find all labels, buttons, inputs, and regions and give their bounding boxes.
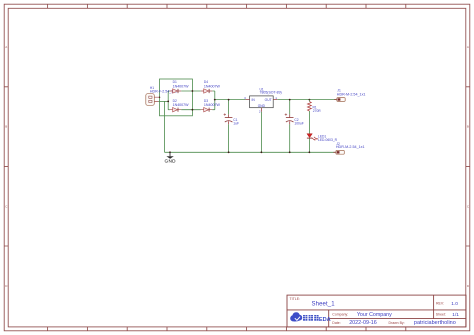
junction at R1 top [309,99,311,101]
wire loop around bridge (net of H1 pin 1) [160,79,193,116]
ground symbol GND [164,152,176,163]
svg-text:patriciabertholino: patriciabertholino [414,320,456,326]
svg-text:2022-09-16: 2022-09-16 [349,320,377,326]
connector H1 [146,86,177,105]
connector J1 [334,88,365,101]
wire C1 top stub [228,100,230,115]
diode D3 [201,99,221,112]
junction at D1/D2 anode branch [167,101,169,103]
svg-text:1N4007W: 1N4007W [173,103,190,107]
wire D1 anode down to D2 anode [168,91,170,110]
wire H1 pin2 to node [158,100,168,102]
junction at D2 cathode [192,109,194,111]
svg-text:Company:: Company: [332,313,348,317]
svg-text:1N4007W: 1N4007W [204,103,221,107]
svg-text:HDR-M-2.54_1x1: HDR-M-2.54_1x1 [337,92,366,96]
svg-text:Sheet_1: Sheet_1 [312,301,336,307]
svg-text:EDA: EDA [319,317,331,323]
wire D1 cathode to D4 anode [181,90,201,92]
wire U1 OUT to J1 [277,99,337,101]
junction at C1 bottom [228,151,230,153]
svg-text:1.0: 1.0 [451,301,458,307]
regulator U1 [244,87,282,113]
connector J2 [333,142,364,154]
svg-text:1N4007W: 1N4007W [173,85,190,89]
junction at H1 pin 1 [159,96,161,98]
wire ground rail [165,151,336,153]
svg-text:GND: GND [164,159,176,164]
svg-text:OUT: OUT [265,98,272,102]
wire C1 bottom stub [228,124,230,152]
capacitor C2 [285,113,304,125]
svg-text:Drawn By:: Drawn By: [389,321,405,325]
wire U1 GND to ground rail [260,112,262,153]
svg-text:1uF: 1uF [233,122,239,126]
svg-text:270R: 270R [313,109,322,113]
capacitor C1 [224,113,239,125]
junction at LED1 cathode [309,151,311,153]
diode D1 [170,80,189,93]
svg-text:A: A [467,45,469,49]
junction at bridge output [214,99,216,101]
wire LED1 cathode down [308,138,310,152]
svg-text:REV:: REV: [436,301,444,305]
svg-text:1N4007W: 1N4007W [204,85,221,89]
junction at C1 top [228,99,230,101]
wire D2 cathode to D3 anode [181,109,201,111]
junction at C2 bottom [289,151,291,153]
svg-text:HDR-M-2.54_1x1: HDR-M-2.54_1x1 [336,145,365,149]
diode D4 [201,80,221,93]
junction at C2 top [289,99,291,101]
wire pin2 node down to ground rail [164,101,166,152]
svg-text:B: B [467,125,469,129]
diode D2 [170,99,189,112]
logo [290,312,331,323]
svg-text:TITLE:: TITLE: [290,297,301,301]
svg-text:B: B [5,125,7,129]
svg-text:1/1: 1/1 [452,312,459,318]
wire D4/D3 cathodes join [212,91,215,110]
svg-text:LED-0603_R: LED-0603_R [318,138,338,142]
wire R1 bottom to LED1 anode [308,111,310,134]
svg-text:Date:: Date: [332,321,340,325]
svg-text:Sheet:: Sheet: [436,313,446,317]
LED1 [307,134,338,143]
svg-text:Your Company: Your Company [357,312,392,318]
junction at U1 GND [261,151,263,153]
wire bridge output to U1 IN [215,99,246,101]
svg-text:A: A [5,45,7,49]
svg-text:7805(SOT-89): 7805(SOT-89) [260,91,282,95]
svg-text:GND: GND [258,104,266,108]
svg-text:100uF: 100uF [294,122,303,126]
junction at D1 cathode [192,90,194,92]
resistor R1 [308,100,322,114]
wire C2 bottom stub [289,124,291,152]
wire C2 top stub [289,100,291,115]
title block [287,295,466,327]
junction at GND stub [169,151,171,153]
